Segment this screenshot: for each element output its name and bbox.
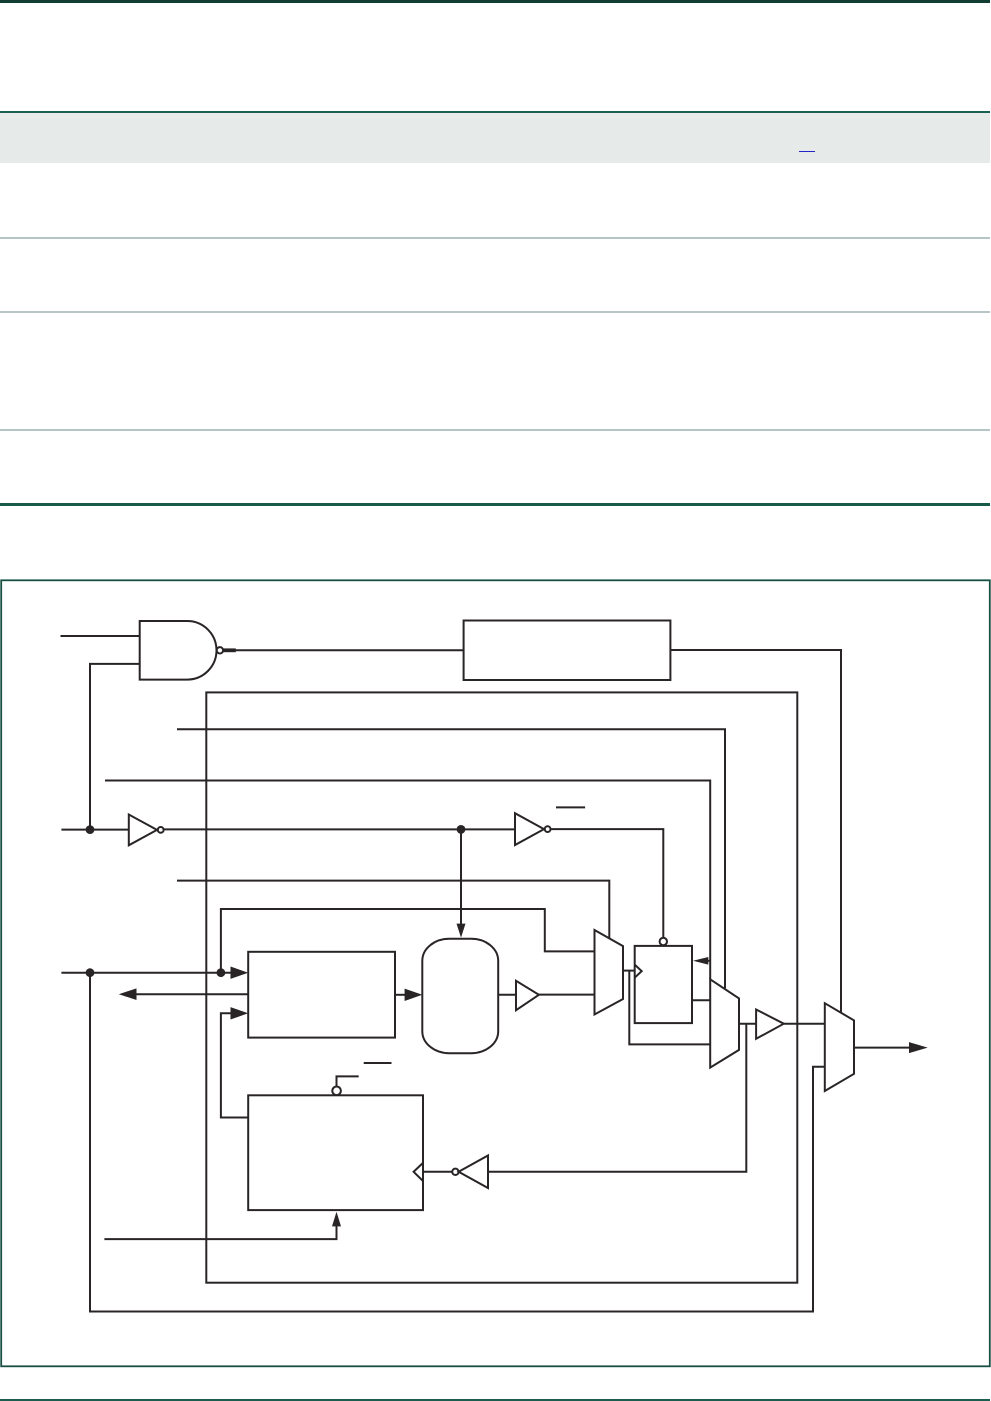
node N1 (86, 825, 95, 834)
F2 clock wedge (414, 1163, 423, 1181)
wire: B1 to pad (395, 994, 406, 996)
link underline (799, 151, 815, 153)
arrow into B1 input 2 (231, 1007, 249, 1019)
top page rule (0, 0, 990, 3)
wire: T1 to mux M1 lower input (539, 994, 595, 996)
buffer T1 (516, 981, 539, 1010)
wire: register box to mux M3 select (670, 650, 841, 1013)
wire: V1 output to inverter V2 (164, 828, 515, 830)
wire: input to inverter V1 (61, 829, 128, 831)
wire: U1 output stub (thick) (223, 648, 236, 652)
inverter V2 bubble (545, 826, 551, 832)
F2 preset hook (337, 1076, 359, 1086)
wire: bus line to mux M2 select (177, 729, 725, 988)
mux M2 (710, 979, 739, 1067)
row rule 3 (0, 429, 990, 431)
nand U1 output bubble (217, 647, 223, 653)
block B1 (248, 952, 395, 1038)
mux M3 (825, 1003, 854, 1091)
wire: T2 to mux M3 upper input (784, 1023, 825, 1025)
figure border frame (1, 580, 990, 1366)
arrowhead left out of B1 (119, 988, 137, 1000)
arrow into F2 bottom (332, 1212, 341, 1227)
wire: bus line to flip-flop F1 enable (105, 781, 710, 980)
wire: M2 output down to inverter V3 (488, 1024, 746, 1172)
node N4 (457, 825, 466, 834)
wire: M1 output to F1 clock (623, 970, 635, 972)
wire: loop from node N3 to mux M1 upper input (221, 909, 595, 973)
buffer T2 (756, 1010, 784, 1039)
flip-flop F1 (635, 946, 692, 1023)
node N2 (86, 968, 95, 977)
wire: U1 input A (61, 635, 140, 637)
flip-flop F2 (248, 1095, 423, 1210)
row rule 1 (0, 237, 990, 239)
arrow into F1 right side (704, 960, 710, 962)
arrow into pad left (405, 989, 423, 1001)
F1 preset bubble (660, 938, 667, 945)
node N3 (217, 968, 226, 977)
mux M1 (595, 930, 624, 1015)
wire: F2 output up into B1 input 2 (221, 1013, 248, 1117)
overbar label mark 1 (556, 806, 585, 808)
row rule 2 (0, 311, 990, 313)
wire: node N4 down to pad arrow (460, 829, 462, 925)
inverter V1 bubble (158, 827, 164, 833)
wire: M2 output to buffer T2 (739, 1023, 756, 1025)
F2 preset bubble (332, 1087, 341, 1096)
table header grey band (0, 113, 990, 163)
F1 clock wedge (635, 965, 642, 978)
arrow into B1 input 1 (231, 967, 249, 979)
footer rule (0, 1399, 990, 1401)
wire: F1 Q to mux M2 (692, 999, 710, 1001)
wire: F2 bottom input (104, 1226, 336, 1239)
arrow into pad top (457, 924, 466, 938)
wire: pad to buffer T1 (498, 994, 516, 996)
wire: feedback line to mux M1 top (177, 881, 609, 939)
inner enclosure box (206, 692, 797, 1282)
wire: node N2 down and along bottom to mux M3 lower input (90, 973, 825, 1312)
wire: U1 output to register box (223, 649, 463, 651)
arrowhead output right (909, 1042, 928, 1053)
pad symbol (422, 939, 498, 1053)
inverter V1 (129, 815, 157, 846)
wire: B1 output arrow to left (135, 993, 248, 995)
wire: U1 input B from node N1 (90, 664, 140, 830)
inverter V3 bubble (452, 1169, 458, 1175)
inverter V2 (515, 813, 544, 845)
wire: F2 clock to inverter V3 bubble (423, 1171, 452, 1173)
overbar label mark 2 (364, 1062, 392, 1064)
wire: M1 output branch down to mux M2 lower input (629, 971, 710, 1045)
table bottom rule (0, 503, 990, 506)
inverter V3 (459, 1156, 488, 1189)
nand gate U1 (140, 621, 217, 680)
block: output register box (464, 621, 671, 681)
wire: M3 output (854, 1047, 910, 1049)
wire: V2 output to F1 preset bubble (551, 829, 664, 938)
table header top rule (0, 111, 990, 113)
wire: left input to box B1 (61, 972, 231, 974)
